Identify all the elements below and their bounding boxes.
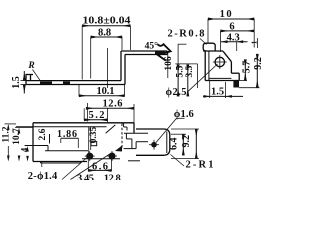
svg-text:2-ϕ1.4: 2-ϕ1.4	[28, 171, 58, 180]
svg-text:3.5: 3.5	[185, 65, 195, 77]
svg-text:R: R	[27, 61, 34, 71]
svg-text:45°: 45°	[145, 41, 159, 52]
svg-text:5.7: 5.7	[241, 61, 252, 74]
svg-text:5.2: 5.2	[89, 110, 105, 121]
svg-text:9.2: 9.2	[181, 135, 192, 148]
svg-text:106: 106	[164, 56, 174, 71]
svg-text:1.5: 1.5	[11, 76, 22, 89]
svg-text:ϕ2.5: ϕ2.5	[166, 87, 187, 98]
svg-text:11.2: 11.2	[1, 126, 11, 142]
svg-text:10.8±0.04: 10.8±0.04	[83, 16, 131, 27]
svg-text:2.6: 2.6	[38, 128, 48, 140]
svg-text:10.7: 10.7	[12, 128, 22, 145]
svg-text:6.4: 6.4	[169, 137, 180, 150]
svg-text:2-R1: 2-R1	[186, 160, 214, 171]
svg-text:3.45: 3.45	[77, 174, 94, 181]
svg-text:9.2: 9.2	[253, 57, 264, 70]
svg-text:5.5: 5.5	[175, 65, 185, 77]
svg-text:12.8: 12.8	[104, 174, 121, 181]
svg-text:1.5: 1.5	[211, 87, 224, 98]
